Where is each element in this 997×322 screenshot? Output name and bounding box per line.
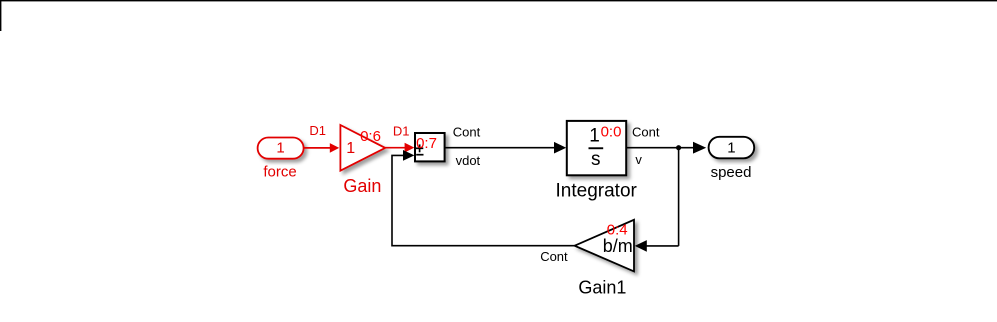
gain block "Gain1" (b/m, points left) bbox=[575, 220, 634, 272]
svg-text:1: 1 bbox=[346, 140, 355, 157]
svg-text:b/m: b/m bbox=[603, 236, 633, 256]
sum minus sign (input 2) bbox=[416, 154, 423, 156]
svg-text:Gain1: Gain1 bbox=[578, 277, 626, 297]
svg-text:force: force bbox=[263, 163, 296, 180]
svg-text:Cont: Cont bbox=[540, 249, 568, 264]
window frame top border bbox=[0, 0, 997, 1]
svg-text:D1: D1 bbox=[393, 124, 410, 139]
svg-text:v: v bbox=[635, 152, 642, 167]
svg-text:vdot: vdot bbox=[456, 153, 481, 168]
window frame left border bbox=[0, 0, 1, 31]
svg-text:D1: D1 bbox=[309, 123, 326, 138]
sum block (square, inputs + and -) bbox=[415, 133, 445, 161]
wire Gain1 to Sum minus input bbox=[392, 150, 575, 246]
wire force to Gain (red) bbox=[304, 143, 340, 153]
wire Gain to Sum (red) bbox=[385, 143, 414, 153]
outport block "speed" (port 1) bbox=[709, 137, 755, 159]
svg-text:0:4: 0:4 bbox=[607, 222, 628, 239]
svg-text:1: 1 bbox=[589, 126, 600, 147]
integrator fraction bar bbox=[589, 147, 604, 149]
junction node bbox=[676, 145, 681, 150]
svg-text:Cont: Cont bbox=[453, 125, 481, 140]
svg-text:0:0: 0:0 bbox=[601, 124, 622, 141]
svg-text:1: 1 bbox=[276, 140, 284, 157]
inport block "force" (port 1, red sample time D1) bbox=[258, 138, 304, 159]
svg-text:Gain: Gain bbox=[343, 176, 381, 196]
sum plus sign (input 1) bbox=[416, 144, 423, 152]
wire Sum to Integrator bbox=[445, 142, 566, 154]
svg-text:0:7: 0:7 bbox=[416, 135, 437, 152]
svg-text:0:6: 0:6 bbox=[360, 128, 381, 145]
wire feedback junction down to Gain1 bbox=[635, 148, 679, 252]
integrator block "Integrator" 1/s bbox=[567, 121, 626, 175]
svg-text:Integrator: Integrator bbox=[556, 181, 638, 202]
svg-text:s: s bbox=[591, 149, 601, 170]
svg-text:speed: speed bbox=[711, 164, 752, 181]
wire Integrator to speed outport bbox=[626, 142, 706, 154]
svg-text:Cont: Cont bbox=[632, 125, 660, 140]
svg-text:1: 1 bbox=[727, 139, 735, 156]
gain block "Gain" (red triangle, value 1) bbox=[340, 125, 385, 171]
